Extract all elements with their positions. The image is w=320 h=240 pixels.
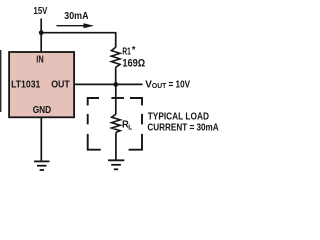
wire RL bottom to ground <box>115 132 117 160</box>
wire VOUT node down to RL <box>115 84 117 114</box>
ground (load) <box>108 160 124 169</box>
current arrow <box>57 23 95 28</box>
edge artifact strip <box>0 50 1 112</box>
wire R1 bottom to VOUT node <box>115 67 117 84</box>
svg-text:CURRENT = 30mA: CURRENT = 30mA <box>147 123 218 134</box>
wire 15V down to IN <box>40 19 42 53</box>
svg-text:IN: IN <box>36 55 43 66</box>
svg-text:TYPICAL LOAD: TYPICAL LOAD <box>148 111 209 122</box>
wire junction to R1 top <box>41 33 116 48</box>
wire GND pin down <box>40 118 42 162</box>
label VOUT = 10V <box>145 79 190 90</box>
svg-text:OUT: OUT <box>152 83 167 90</box>
resistor RL <box>112 114 121 132</box>
svg-text:= 10V: = 10V <box>169 79 191 90</box>
node junction dot VOUT <box>113 82 118 87</box>
svg-text:15V: 15V <box>34 6 48 17</box>
svg-text:L: L <box>128 123 132 132</box>
svg-text:GND: GND <box>33 105 52 116</box>
svg-text:*: * <box>132 45 136 56</box>
node junction dot (15V rail) <box>39 30 44 35</box>
svg-text:LT1031: LT1031 <box>11 79 41 90</box>
svg-text:OUT: OUT <box>51 79 69 90</box>
svg-text:30mA: 30mA <box>64 11 88 22</box>
ground (LT1031 GND) <box>34 161 50 170</box>
label RL <box>122 119 133 131</box>
LT1031 box <box>9 52 74 117</box>
dashed load box <box>88 98 142 150</box>
svg-text:R1: R1 <box>122 47 131 58</box>
svg-text:169Ω: 169Ω <box>122 58 145 70</box>
resistor R1 <box>111 47 120 67</box>
wire OUT pin to VOUT stub <box>75 83 143 85</box>
